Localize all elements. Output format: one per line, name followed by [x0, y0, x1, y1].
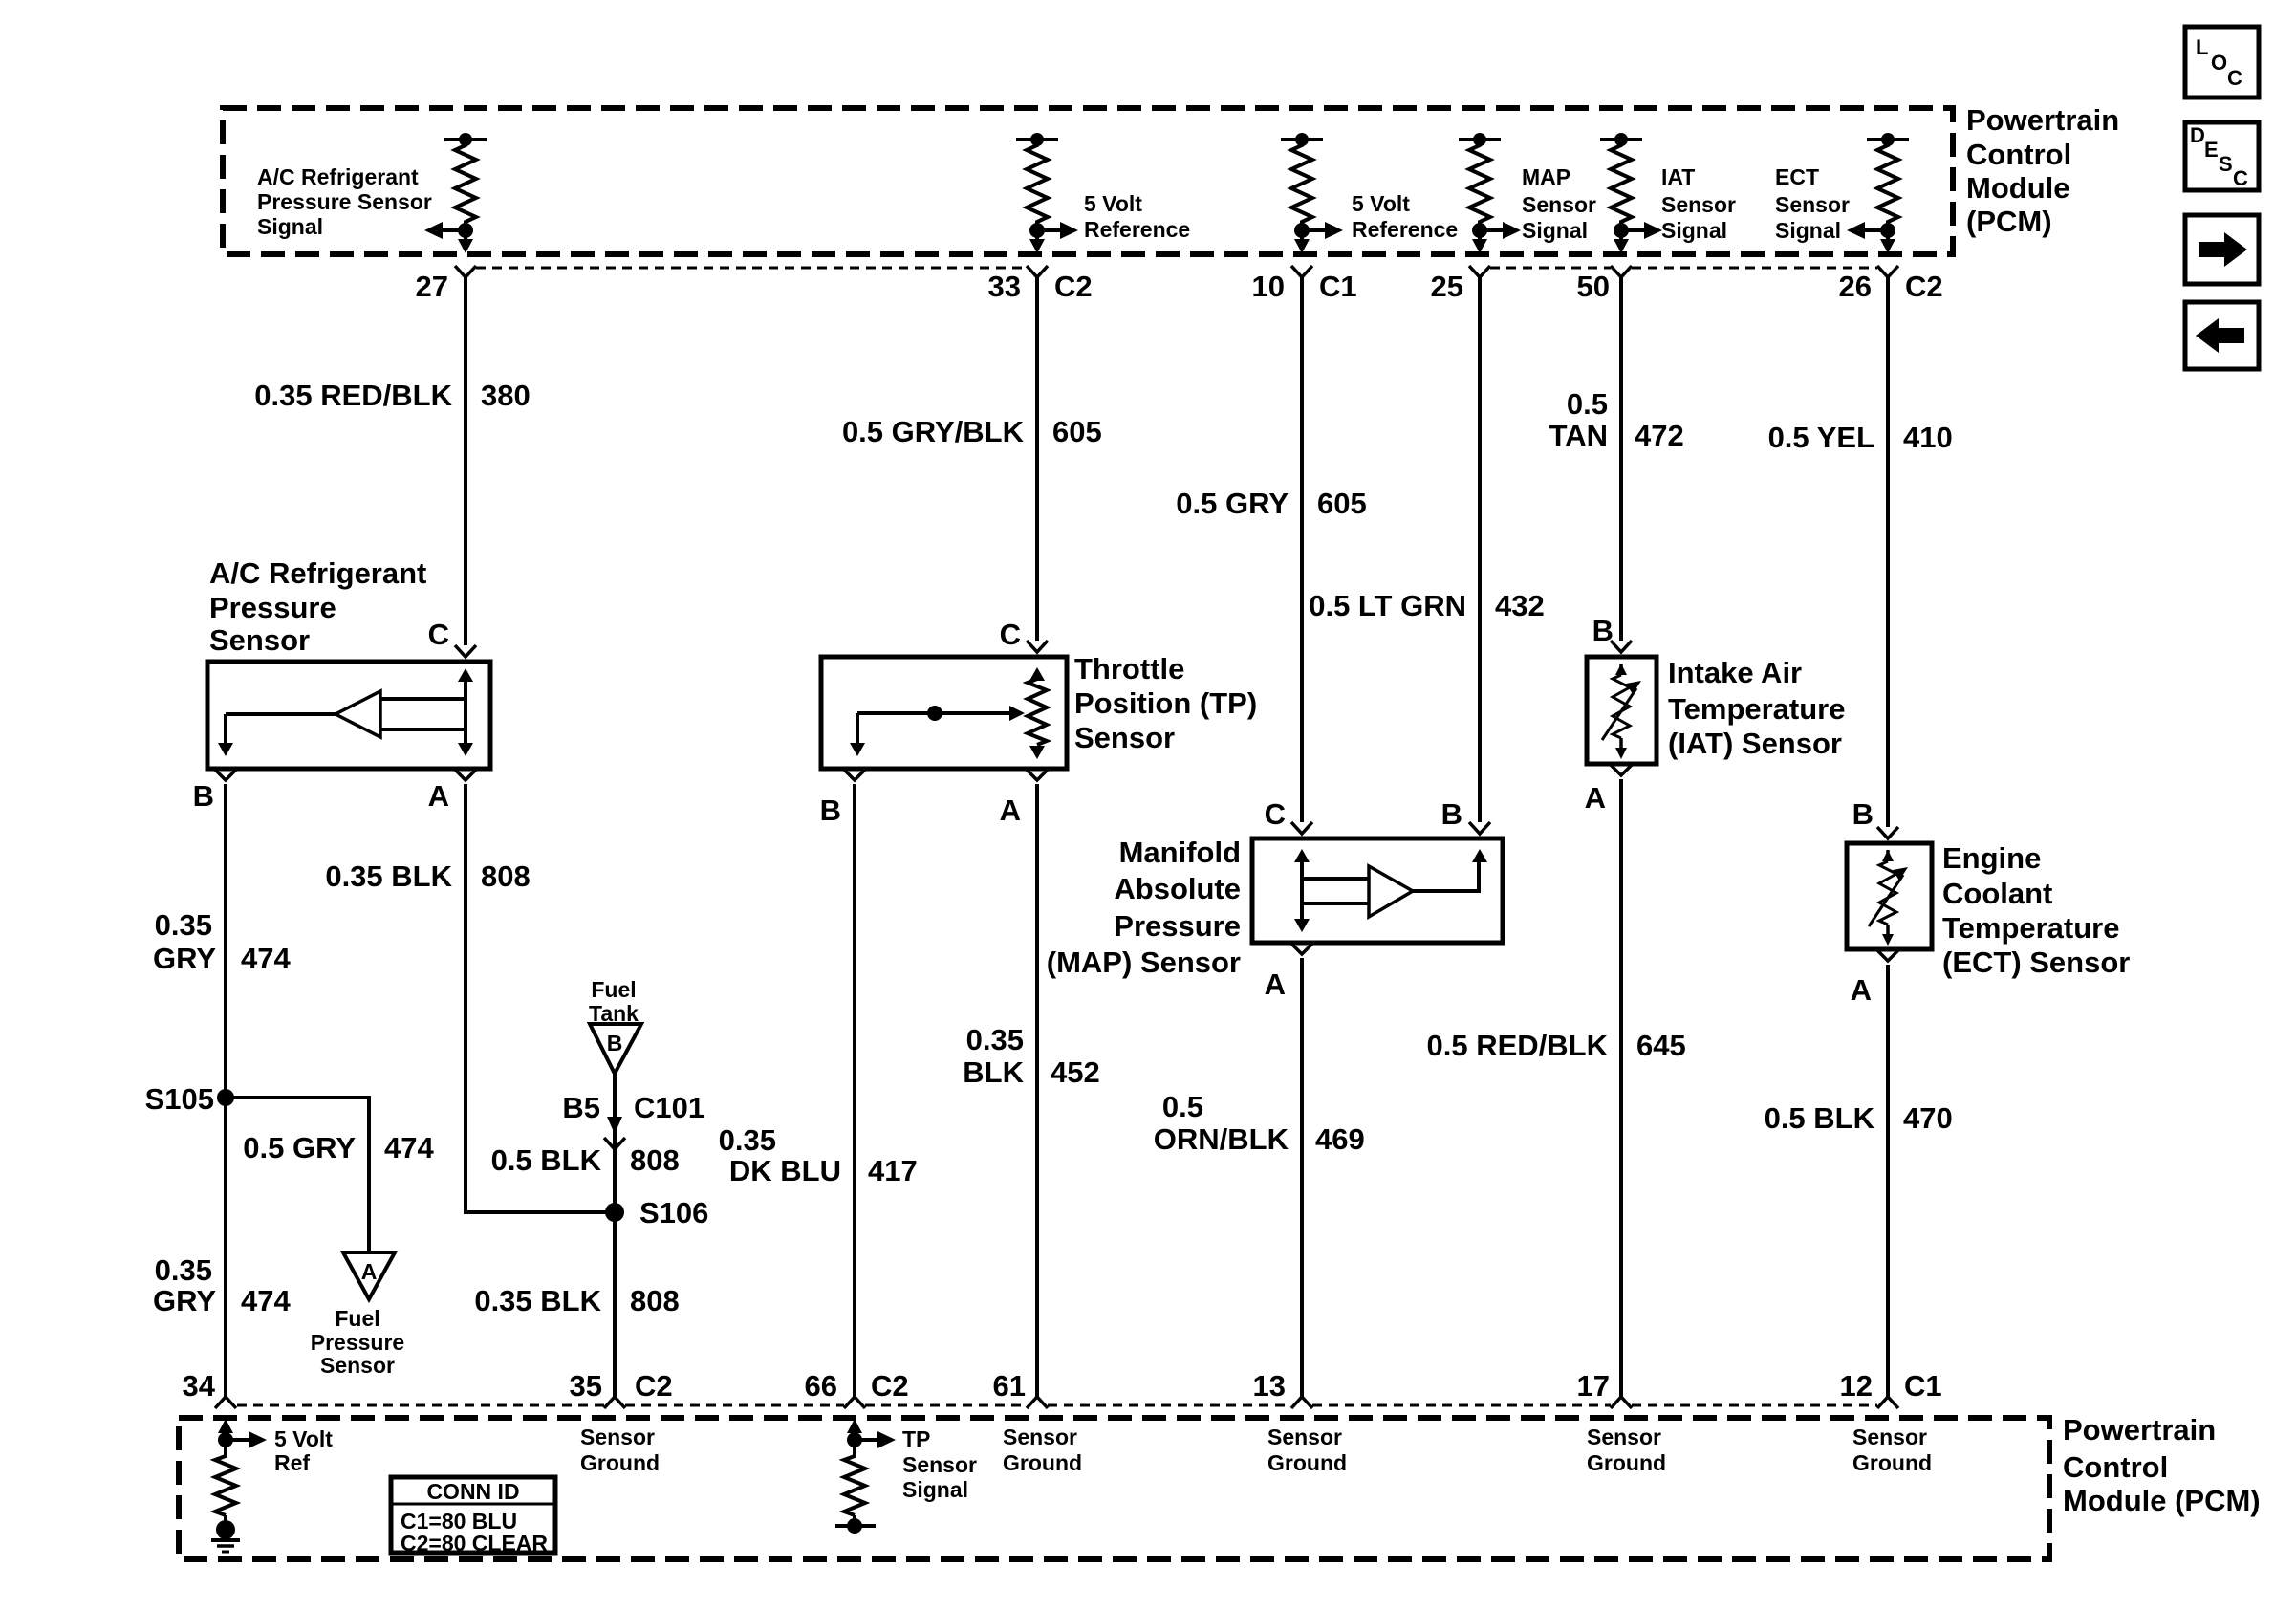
legend next-page arrow box	[2185, 215, 2259, 284]
resistor PCM TP sensor signal (pin 66)	[835, 1419, 896, 1534]
resistor PCM IAT sensor signal (pin 50)	[1600, 133, 1662, 253]
svg-text:10: 10	[1252, 270, 1285, 303]
TP sensor pin C terminal	[1027, 641, 1048, 652]
label Sensor Ground (pin 35)	[580, 1425, 660, 1475]
svg-text:26: 26	[1839, 270, 1872, 303]
svg-text:A: A	[361, 1259, 378, 1284]
connector line C2/C1 top (dotted)	[476, 267, 1877, 270]
svg-text:Fuel: Fuel	[335, 1306, 379, 1331]
svg-text:(PCM): (PCM)	[1966, 205, 2052, 238]
wire 605 GRY/BLK pin33 to TP sensor C	[1035, 277, 1039, 641]
svg-text:Throttle: Throttle	[1074, 652, 1184, 685]
splice S106	[605, 1203, 624, 1222]
svg-text:Ref: Ref	[274, 1450, 310, 1475]
svg-text:Sensor: Sensor	[580, 1425, 655, 1449]
svg-text:ORN/BLK: ORN/BLK	[1154, 1122, 1289, 1156]
svg-text:25: 25	[1431, 270, 1463, 303]
svg-text:D: D	[2190, 123, 2205, 147]
svg-text:IAT: IAT	[1661, 164, 1695, 189]
svg-text:B: B	[1852, 797, 1874, 831]
svg-text:S106: S106	[639, 1196, 708, 1229]
svg-text:TAN: TAN	[1549, 419, 1608, 452]
svg-text:Intake Air: Intake Air	[1668, 656, 1802, 689]
svg-text:0.35 RED/BLK: 0.35 RED/BLK	[254, 379, 452, 412]
pin 26 C2 terminal	[1877, 266, 1898, 277]
svg-text:O: O	[2211, 51, 2227, 75]
wire 470 BLK ECT sensor A to pin 12	[1886, 965, 1890, 1397]
A/C refrigerant pressure sensor title	[209, 556, 426, 657]
svg-text:Ground: Ground	[1852, 1450, 1932, 1475]
svg-text:Pressure: Pressure	[1114, 909, 1241, 943]
legend LOC box	[2185, 27, 2259, 98]
svg-text:0.5 GRY/BLK: 0.5 GRY/BLK	[842, 415, 1025, 448]
svg-text:61: 61	[993, 1369, 1026, 1403]
svg-text:B: B	[1441, 797, 1462, 831]
svg-text:645: 645	[1636, 1029, 1686, 1062]
label Powertrain Control Module (PCM) top right	[1966, 103, 2119, 238]
svg-text:CONN ID: CONN ID	[426, 1479, 519, 1504]
IAT sensor title	[1668, 656, 1846, 760]
svg-text:0.35: 0.35	[966, 1023, 1024, 1056]
svg-text:Signal: Signal	[1775, 218, 1841, 243]
svg-text:Powertrain: Powertrain	[1966, 103, 2119, 137]
svg-text:469: 469	[1315, 1122, 1365, 1156]
pin 13 terminal	[1291, 1397, 1312, 1408]
wire 474 GRY A/C sensor B to pin 34	[224, 784, 227, 1397]
ECT sensor title	[1942, 841, 2130, 979]
svg-text:(ECT) Sensor: (ECT) Sensor	[1942, 946, 2130, 979]
pin 10 C1 terminal	[1291, 266, 1312, 277]
svg-text:A: A	[428, 779, 449, 813]
svg-text:12: 12	[1840, 1369, 1873, 1403]
svg-text:Powertrain: Powertrain	[2063, 1413, 2216, 1447]
svg-text:0.5 GRY: 0.5 GRY	[243, 1131, 356, 1164]
svg-text:Ground: Ground	[1587, 1450, 1666, 1475]
pin 34 terminal	[215, 1397, 236, 1408]
label 5 Volt Reference (C2)	[1084, 191, 1190, 242]
svg-text:0.5 BLK: 0.5 BLK	[1765, 1101, 1875, 1135]
label B5 C101	[562, 1091, 704, 1124]
A/C sensor pin B terminal	[215, 770, 236, 780]
svg-text:Module (PCM): Module (PCM)	[2063, 1484, 2261, 1517]
MAP sensor title	[1047, 836, 1241, 979]
svg-text:808: 808	[630, 1143, 680, 1177]
label Fuel Pressure Sensor	[311, 1306, 404, 1378]
label 5 Volt Ref	[274, 1426, 333, 1475]
pin 35 C2 terminal	[604, 1397, 625, 1408]
svg-text:GRY: GRY	[153, 1284, 216, 1317]
svg-text:Sensor: Sensor	[1267, 1425, 1342, 1449]
wire 472 TAN pin50 to IAT sensor B	[1619, 277, 1623, 641]
svg-text:Sensor: Sensor	[209, 623, 310, 657]
wire 808 BLK fuel tank to pin 35	[613, 1074, 617, 1397]
wire branch S105 to fuel pressure sensor	[226, 1098, 369, 1252]
TP sensor wiper arm	[850, 706, 1025, 756]
ECT sensor box	[1847, 843, 1932, 949]
MAP sensor box	[1252, 838, 1503, 943]
A/C sensor pin A terminal	[455, 770, 476, 780]
MAP sensor pin B terminal	[1469, 822, 1490, 834]
svg-text:0.5: 0.5	[1567, 387, 1608, 421]
wire 432 LT GRN pin25 to MAP sensor B	[1478, 277, 1482, 822]
legend DESC box	[2185, 122, 2259, 190]
svg-text:5 Volt: 5 Volt	[274, 1426, 333, 1451]
svg-text:808: 808	[630, 1284, 680, 1317]
wire 605 GRY pin10 to MAP sensor C	[1300, 277, 1304, 822]
svg-text:Module: Module	[1966, 171, 2070, 205]
pin 50 terminal	[1611, 266, 1632, 277]
A/C sensor pin C terminal	[455, 645, 476, 657]
svg-text:Sensor: Sensor	[1661, 192, 1736, 217]
svg-text:C: C	[1000, 618, 1021, 651]
svg-text:(MAP) Sensor: (MAP) Sensor	[1047, 946, 1241, 979]
throttle position sensor box	[821, 657, 1067, 769]
svg-text:TP: TP	[902, 1426, 930, 1451]
svg-text:Ground: Ground	[1267, 1450, 1347, 1475]
svg-text:A: A	[1265, 968, 1286, 1001]
svg-text:Pressure Sensor: Pressure Sensor	[257, 189, 432, 214]
label TP Sensor Signal	[902, 1426, 977, 1502]
svg-text:B: B	[820, 794, 841, 827]
svg-text:C: C	[2233, 166, 2248, 190]
wire 645 RED/BLK IAT sensor A to pin 17	[1619, 779, 1623, 1397]
svg-text:Pressure: Pressure	[209, 591, 336, 624]
TP sensor potentiometer	[1028, 667, 1047, 759]
svg-text:474: 474	[384, 1131, 434, 1164]
svg-text:Coolant: Coolant	[1942, 877, 2052, 910]
svg-text:C: C	[1265, 797, 1286, 831]
wire 380 RED/BLK pin27 to A/C sensor C	[464, 277, 467, 645]
label Sensor Ground (pin 17)	[1587, 1425, 1666, 1475]
svg-text:Engine: Engine	[1942, 841, 2041, 875]
label wire 472 0.5 TAN	[1549, 387, 1684, 452]
svg-text:5 Volt: 5 Volt	[1084, 191, 1142, 216]
label 5 Volt Reference (C1)	[1352, 191, 1458, 242]
svg-text:Signal: Signal	[1661, 218, 1727, 243]
svg-text:Manifold: Manifold	[1119, 836, 1241, 869]
svg-text:Sensor: Sensor	[1522, 192, 1596, 217]
svg-text:66: 66	[805, 1369, 837, 1403]
svg-text:C101: C101	[634, 1091, 704, 1124]
svg-text:Absolute: Absolute	[1114, 872, 1241, 905]
svg-text:Reference: Reference	[1352, 217, 1458, 242]
ground (PCM internal)	[211, 1520, 240, 1552]
svg-text:27: 27	[416, 270, 448, 303]
MAP sensor pin C terminal	[1291, 822, 1312, 834]
IAT sensor thermistor	[1602, 664, 1641, 759]
svg-text:Sensor: Sensor	[902, 1452, 977, 1477]
svg-text:DK BLU: DK BLU	[729, 1154, 841, 1187]
ECT sensor pin B terminal	[1877, 827, 1898, 838]
svg-text:474: 474	[241, 1284, 291, 1317]
label Powertrain Control Module (PCM) bottom right	[2063, 1413, 2261, 1517]
svg-text:0.35 BLK: 0.35 BLK	[325, 859, 452, 893]
svg-text:0.5 YEL: 0.5 YEL	[1768, 421, 1874, 454]
label Sensor Ground (pin 61)	[1003, 1425, 1082, 1475]
svg-text:GRY: GRY	[153, 942, 216, 975]
svg-text:B5: B5	[562, 1091, 600, 1124]
splice S105	[217, 1089, 234, 1106]
IAT sensor pin A terminal	[1611, 765, 1632, 775]
svg-text:Ground: Ground	[580, 1450, 660, 1475]
svg-text:Signal: Signal	[1522, 218, 1588, 243]
svg-text:Temperature: Temperature	[1668, 692, 1846, 726]
svg-text:L: L	[2196, 35, 2208, 59]
wire 452 BLK TP sensor A to pin 61	[1035, 784, 1039, 1397]
svg-text:C2: C2	[871, 1369, 909, 1403]
svg-text:417: 417	[868, 1154, 918, 1187]
resistor PCM A/C refrigerant pressure sensor signal (pin 27)	[424, 133, 487, 253]
svg-text:0.5 BLK: 0.5 BLK	[491, 1143, 602, 1177]
legend prev-page arrow box	[2185, 302, 2259, 369]
svg-text:Sensor: Sensor	[1587, 1425, 1661, 1449]
PCM bottom box (Powertrain Control Module)	[179, 1418, 2049, 1559]
svg-text:410: 410	[1903, 421, 1953, 454]
label wire 469 0.5 ORN/BLK	[1154, 1090, 1365, 1156]
svg-text:S105: S105	[145, 1082, 214, 1116]
label wire 474 0.35 GRY (upper)	[153, 908, 292, 975]
svg-text:35: 35	[570, 1369, 602, 1403]
wire 410 YEL pin26 to ECT sensor B	[1886, 277, 1890, 827]
svg-text:Sensor: Sensor	[1074, 721, 1175, 754]
svg-text:C2: C2	[635, 1369, 673, 1403]
label wire 474 0.35 GRY (lower)	[153, 1253, 292, 1317]
svg-text:B: B	[193, 779, 214, 813]
svg-text:S: S	[2219, 152, 2233, 176]
svg-text:(IAT) Sensor: (IAT) Sensor	[1668, 727, 1842, 760]
svg-text:474: 474	[241, 942, 291, 975]
svg-text:34: 34	[183, 1369, 216, 1403]
svg-text:472: 472	[1635, 419, 1684, 452]
pin 27 terminal	[455, 266, 476, 277]
svg-text:13: 13	[1253, 1369, 1286, 1403]
svg-text:A: A	[1851, 973, 1872, 1007]
svg-text:C: C	[428, 618, 449, 651]
svg-text:Sensor: Sensor	[1775, 192, 1850, 217]
svg-text:A: A	[1000, 794, 1021, 827]
MAP sensor internal amplifier	[1294, 849, 1487, 932]
IAT sensor box	[1587, 657, 1657, 764]
svg-text:470: 470	[1903, 1101, 1953, 1135]
svg-text:Ground: Ground	[1003, 1450, 1082, 1475]
wire 808 BLK A/C sensor A to S106	[466, 784, 615, 1212]
svg-text:432: 432	[1495, 589, 1545, 622]
svg-text:Reference: Reference	[1084, 217, 1190, 242]
svg-text:Control: Control	[1966, 138, 2071, 171]
svg-text:Fuel: Fuel	[591, 977, 636, 1002]
svg-text:0.5 LT GRN: 0.5 LT GRN	[1309, 589, 1466, 622]
TP sensor pin A terminal	[1027, 770, 1048, 780]
resistor PCM 5 volt reference (pin 10 C1)	[1281, 133, 1343, 253]
svg-text:MAP: MAP	[1522, 164, 1570, 189]
resistor PCM 5 volt ref (pin 34)	[215, 1419, 267, 1522]
svg-text:Signal: Signal	[257, 214, 323, 239]
svg-text:Sensor: Sensor	[1003, 1425, 1077, 1449]
pin 25 terminal	[1469, 266, 1490, 277]
pin 17 terminal	[1611, 1397, 1632, 1408]
label Sensor Ground (pin 12)	[1852, 1425, 1932, 1475]
svg-text:C2=80 CLEAR: C2=80 CLEAR	[401, 1531, 548, 1556]
connector C101 pin B5	[604, 1117, 625, 1149]
label ECT Sensor Signal	[1775, 164, 1850, 243]
svg-text:Control: Control	[2063, 1450, 2168, 1484]
svg-text:605: 605	[1052, 415, 1102, 448]
PCM top box (Powertrain Control Module)	[223, 108, 1953, 254]
svg-text:B: B	[607, 1031, 623, 1055]
svg-text:Signal: Signal	[902, 1477, 968, 1502]
A/C sensor internal circuit	[218, 668, 473, 756]
label Fuel Tank	[589, 977, 639, 1026]
svg-text:808: 808	[481, 859, 531, 893]
A/C refrigerant pressure sensor box	[207, 662, 490, 769]
fuel tank off-page triangle B	[590, 1024, 641, 1074]
svg-text:605: 605	[1317, 487, 1367, 520]
svg-text:C2: C2	[1905, 270, 1943, 303]
MAP sensor pin A terminal	[1291, 944, 1312, 954]
svg-text:Temperature: Temperature	[1942, 911, 2120, 945]
svg-text:C: C	[2227, 66, 2242, 90]
svg-text:Position (TP): Position (TP)	[1074, 686, 1257, 720]
label IAT Sensor Signal	[1661, 164, 1736, 243]
svg-text:17: 17	[1577, 1369, 1610, 1403]
wire 469 ORN/BLK MAP sensor A to pin 13	[1300, 958, 1304, 1397]
svg-text:C1: C1	[1904, 1369, 1942, 1403]
svg-text:50: 50	[1577, 270, 1610, 303]
svg-text:0.35: 0.35	[155, 1253, 212, 1287]
svg-text:0.5 GRY: 0.5 GRY	[1176, 487, 1289, 520]
svg-text:0.35: 0.35	[719, 1123, 776, 1157]
svg-text:Sensor: Sensor	[320, 1353, 395, 1378]
connector line bottom (dotted)	[237, 1404, 1877, 1407]
resistor PCM 5 volt reference (pin 33 C2)	[1016, 133, 1078, 253]
fuel pressure sensor off-page triangle A	[343, 1252, 395, 1299]
svg-text:0.35: 0.35	[155, 908, 212, 942]
wire 417 DK BLU TP sensor B to pin 66	[853, 784, 856, 1397]
svg-text:BLK: BLK	[963, 1055, 1024, 1089]
ECT sensor pin A terminal	[1877, 950, 1898, 961]
svg-text:C1: C1	[1319, 270, 1357, 303]
resistor PCM ECT sensor signal (pin 26 C2)	[1847, 133, 1909, 253]
TP sensor pin B terminal	[844, 770, 865, 780]
svg-text:A/C Refrigerant: A/C Refrigerant	[257, 164, 419, 189]
TP sensor title	[1074, 652, 1257, 754]
svg-text:A/C Refrigerant: A/C Refrigerant	[209, 556, 426, 590]
ECT sensor thermistor	[1869, 850, 1908, 946]
CONN ID table	[391, 1477, 555, 1556]
resistor PCM MAP sensor signal (pin 25)	[1459, 133, 1521, 253]
label wire 417 0.35 DK BLU	[719, 1123, 918, 1187]
svg-text:380: 380	[481, 379, 531, 412]
IAT sensor pin B terminal	[1611, 641, 1632, 652]
svg-text:0.35 BLK: 0.35 BLK	[474, 1284, 601, 1317]
pin 66 C2 terminal	[844, 1397, 865, 1408]
svg-text:C2: C2	[1054, 270, 1093, 303]
pin 61 terminal	[1027, 1397, 1048, 1408]
svg-text:0.5: 0.5	[1162, 1090, 1203, 1123]
pin 12 C1 terminal	[1877, 1397, 1898, 1408]
svg-text:E: E	[2204, 138, 2219, 162]
svg-text:33: 33	[988, 270, 1021, 303]
svg-text:Sensor: Sensor	[1852, 1425, 1927, 1449]
label wire 452 0.35 BLK	[963, 1023, 1099, 1089]
label MAP Sensor Signal	[1522, 164, 1596, 243]
svg-text:Pressure: Pressure	[311, 1330, 404, 1355]
svg-text:A: A	[1585, 781, 1606, 815]
label Sensor Ground (pin 13)	[1267, 1425, 1347, 1475]
pin 33 C2 terminal	[1027, 266, 1048, 277]
svg-text:ECT: ECT	[1775, 164, 1819, 189]
svg-text:0.5 RED/BLK: 0.5 RED/BLK	[1427, 1029, 1609, 1062]
svg-text:452: 452	[1051, 1055, 1100, 1089]
svg-text:5 Volt: 5 Volt	[1352, 191, 1410, 216]
label A/C Refrigerant Pressure Sensor Signal	[257, 164, 432, 239]
